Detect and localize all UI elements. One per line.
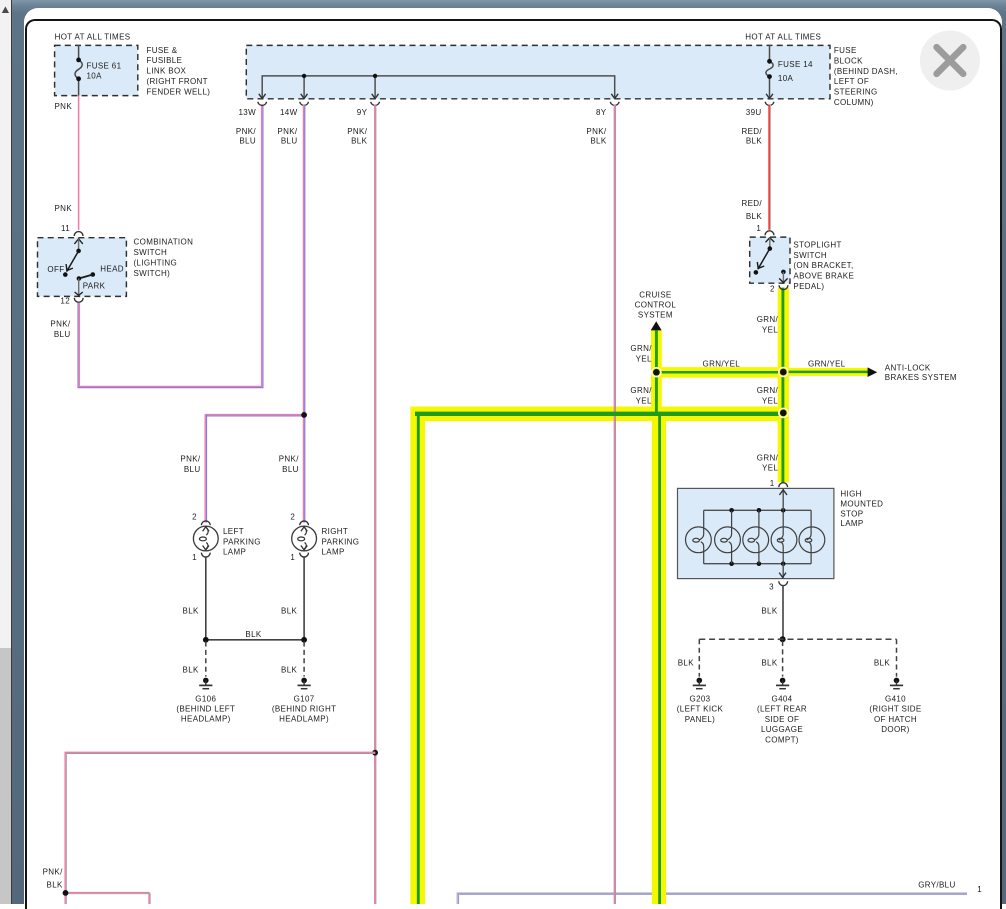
- GRN/YEL highlight band: long horizontal with left drop (D/E): [418, 414, 784, 904]
- svg-text:BLK: BLK: [183, 606, 199, 615]
- GRN/YEL wire green core: cruise vertical upper (C): [655, 331, 658, 414]
- lamp feed horizontal (two-tone): [205, 415, 305, 416]
- connector cups below fuse block: [258, 102, 774, 106]
- svg-text:YEL: YEL: [762, 325, 778, 334]
- svg-text:COMPT): COMPT): [765, 735, 799, 744]
- svg-text:GRN/: GRN/: [757, 386, 779, 395]
- svg-text:SYSTEM: SYSTEM: [638, 311, 673, 320]
- stop lamp exit with arrow: [779, 564, 786, 579]
- right parking lamp: [292, 526, 317, 551]
- svg-text:COLUMN): COLUMN): [834, 98, 874, 107]
- svg-text:PNK/: PNK/: [279, 455, 299, 464]
- svg-text:9Y: 9Y: [357, 108, 368, 117]
- svg-text:G404: G404: [772, 695, 793, 704]
- svg-text:GRN/: GRN/: [630, 386, 652, 395]
- 9Y PNK/BLK wire down (two-tone): [375, 105, 376, 904]
- 14W PNK/BLU wire down to junction: [303, 105, 304, 416]
- svg-text:FUSE &: FUSE &: [147, 46, 178, 55]
- 8Y PNK/BLK wire down (two-tone): [614, 105, 615, 904]
- GRN/YEL wire green core: ABS horizontal right (B): [783, 371, 867, 374]
- svg-text:PNK/: PNK/: [180, 455, 200, 464]
- svg-text:1: 1: [192, 553, 197, 562]
- dashed drop to G404: [782, 641, 784, 677]
- scrollbar up-arrow: [2, 6, 9, 13]
- svg-text:YEL: YEL: [762, 464, 778, 473]
- high mounted stop lamp name label: [840, 490, 883, 529]
- svg-text:LAMP: LAMP: [840, 519, 863, 528]
- svg-text:SWITCH: SWITCH: [793, 251, 827, 260]
- svg-text:FUSE: FUSE: [834, 46, 857, 55]
- svg-text:RED/: RED/: [741, 199, 762, 208]
- svg-text:RIGHT: RIGHT: [322, 527, 349, 536]
- svg-text:BLK: BLK: [351, 136, 367, 145]
- svg-text:PARKING: PARKING: [223, 537, 261, 546]
- svg-text:8Y: 8Y: [596, 108, 607, 117]
- GRN/YEL highlight band: cruise control vertical upper (C): [651, 331, 662, 414]
- svg-text:GRN/: GRN/: [757, 315, 779, 324]
- 9Y branch junction node: [372, 750, 378, 756]
- svg-text:(BEHIND DASH,: (BEHIND DASH,: [834, 67, 898, 76]
- svg-text:(LIGHTING: (LIGHTING: [134, 258, 178, 267]
- G106 ground label: [176, 694, 235, 723]
- dashed drop to G107: [303, 642, 305, 677]
- combination switch internals: [63, 239, 95, 296]
- svg-text:BLK: BLK: [590, 136, 606, 145]
- svg-text:BLK: BLK: [183, 665, 199, 674]
- stop lamp bulb 3: [743, 510, 769, 563]
- svg-text:BLK: BLK: [761, 659, 777, 668]
- svg-text:2: 2: [290, 513, 295, 522]
- right parking lamp name label: [322, 527, 360, 557]
- ground G203 symbol: [693, 678, 706, 689]
- junction node 14W/lamp feed: [301, 412, 307, 418]
- svg-text:1: 1: [756, 224, 761, 233]
- svg-text:BLU: BLU: [282, 465, 299, 474]
- junction node A/D: [778, 408, 789, 419]
- svg-text:(ON BRACKET,: (ON BRACKET,: [793, 261, 853, 270]
- right parking lamp pin 2 connector cup: [300, 521, 309, 525]
- BLK wire right lamp to junction: [303, 557, 305, 640]
- fuse 61 symbol: [75, 45, 82, 96]
- GRN/YEL highlight band: stoplight switch to stop lamp (vertical A): [778, 288, 789, 483]
- svg-text:GRN/YEL: GRN/YEL: [703, 359, 741, 368]
- GRN/YEL wire green core: cruise vertical lower (C): [658, 412, 661, 904]
- svg-text:STOP: STOP: [840, 509, 863, 518]
- stoplight switch box: [750, 237, 790, 283]
- svg-text:OF HATCH: OF HATCH: [874, 715, 917, 724]
- svg-text:GRN/: GRN/: [757, 454, 779, 463]
- svg-text:3: 3: [769, 582, 774, 591]
- svg-text:YEL: YEL: [762, 396, 778, 405]
- stop lamp bulb 1: [686, 510, 712, 563]
- svg-text:HIGH: HIGH: [840, 490, 861, 499]
- stop lamp bulb 4: [771, 510, 797, 563]
- svg-text:GRN/: GRN/: [630, 344, 652, 353]
- pin 11 connector cup: [74, 232, 83, 236]
- GRN/YEL wire green core: long horizontal (D): [415, 412, 783, 416]
- anti-lock brakes arrow: [868, 367, 878, 377]
- junction node left lamp ground: [203, 637, 209, 643]
- svg-text:HEAD: HEAD: [100, 265, 124, 274]
- svg-text:FUSE 61: FUSE 61: [87, 61, 122, 70]
- G203 ground label: [677, 695, 724, 724]
- svg-text:(BEHIND RIGHT: (BEHIND RIGHT: [272, 705, 337, 714]
- svg-text:1: 1: [290, 553, 295, 562]
- ground G107 symbol: [298, 678, 311, 689]
- GRN/YEL wire green core: ABS horizontal left (B): [656, 371, 783, 374]
- svg-text:BLU: BLU: [281, 136, 298, 145]
- svg-text:YEL: YEL: [636, 396, 652, 405]
- left parking lamp pin 2 connector cup: [201, 521, 210, 525]
- svg-text:12: 12: [60, 297, 70, 306]
- svg-text:STOPLIGHT: STOPLIGHT: [793, 240, 841, 249]
- left parking lamp: [193, 526, 218, 551]
- stop lamp pin 1 connector cup: [779, 483, 788, 487]
- svg-text:BLK: BLK: [678, 659, 694, 668]
- PNK/BLU wire: pin 12 down, right, up to 13W (two-tone): [78, 105, 263, 388]
- stoplight switch pin 1 connector cup: [765, 231, 774, 235]
- PNK/BLK branch wire to bottom left (two-tone): [65, 752, 375, 904]
- svg-text:HEADLAMP): HEADLAMP): [181, 715, 231, 724]
- fuse &amp; fusible link box: [55, 45, 138, 95]
- svg-text:PARKING: PARKING: [322, 537, 360, 546]
- svg-text:LUGGAGE: LUGGAGE: [761, 725, 803, 734]
- BLK wire left lamp to junction: [205, 557, 207, 640]
- stop lamp feed entry with arrow: [779, 488, 787, 510]
- BLK wire from stop lamp pin 3: [782, 585, 784, 639]
- svg-text:PNK/: PNK/: [50, 320, 70, 329]
- svg-text:2: 2: [770, 285, 775, 294]
- G107 ground label: [272, 694, 337, 723]
- scrollbar thumb: [0, 648, 11, 904]
- svg-text:39U: 39U: [746, 108, 762, 117]
- stoplight switch name label: [793, 240, 854, 291]
- svg-text:SIDE OF: SIDE OF: [765, 715, 799, 724]
- svg-text:HEADLAMP): HEADLAMP): [279, 715, 329, 724]
- svg-text:PNK/: PNK/: [277, 127, 297, 136]
- svg-text:BLK: BLK: [746, 136, 762, 145]
- ground G410 symbol: [890, 678, 903, 689]
- svg-text:DOOR): DOOR): [881, 725, 909, 734]
- svg-text:LAMP: LAMP: [223, 548, 246, 557]
- branch junction node bottom left: [63, 890, 69, 896]
- G410 ground label: [869, 695, 921, 735]
- GRN/YEL highlight band: cruise control vertical lower (C): [652, 407, 666, 905]
- svg-text:2: 2: [192, 513, 197, 522]
- 39U RED/BLK wire down to stoplight switch (two-tone): [769, 105, 770, 230]
- scrollbar track: [0, 0, 11, 904]
- svg-text:CRUISE: CRUISE: [639, 291, 671, 300]
- svg-text:(LEFT KICK: (LEFT KICK: [677, 705, 724, 714]
- GRN/YEL wire green core: switch to stop lamp (A): [781, 288, 784, 483]
- close button: [920, 31, 980, 91]
- combination switch box: [38, 238, 127, 297]
- svg-text:COMBINATION: COMBINATION: [134, 238, 194, 247]
- svg-text:LEFT OF: LEFT OF: [834, 77, 869, 86]
- anti-lock brakes system label: [885, 363, 957, 382]
- svg-text:CONTROL: CONTROL: [635, 301, 677, 310]
- right parking lamp pin 1 connector cup: [300, 553, 309, 557]
- svg-text:PNK: PNK: [55, 102, 73, 111]
- svg-text:YEL: YEL: [636, 354, 652, 363]
- junction node A/B: [778, 367, 789, 378]
- svg-text:GRN/YEL: GRN/YEL: [808, 359, 846, 368]
- svg-text:PNK/: PNK/: [586, 127, 606, 136]
- svg-text:PNK/: PNK/: [236, 127, 256, 136]
- BLK crossover wire between lamp grounds: [206, 639, 304, 641]
- svg-text:BLK: BLK: [47, 881, 63, 890]
- svg-text:PNK/: PNK/: [347, 127, 367, 136]
- cruise control arrow: [651, 321, 662, 330]
- svg-text:10A: 10A: [778, 74, 794, 83]
- svg-text:OFF: OFF: [47, 265, 64, 274]
- svg-text:BLU: BLU: [184, 465, 201, 474]
- svg-text:LAMP: LAMP: [322, 548, 345, 557]
- stop lamp internal bus top: [704, 508, 811, 513]
- dashed ground bus: [699, 638, 896, 640]
- svg-text:BLOCK: BLOCK: [834, 56, 863, 65]
- svg-text:GRY/BLU: GRY/BLU: [918, 881, 955, 890]
- svg-text:13W: 13W: [239, 108, 257, 117]
- fuse 14 symbol: [766, 45, 773, 99]
- svg-text:PNK/: PNK/: [43, 868, 63, 877]
- svg-text:ABOVE BRAKE: ABOVE BRAKE: [793, 272, 854, 281]
- stop lamp bulb 2: [715, 510, 741, 563]
- left parking lamp pin 1 connector cup: [201, 553, 210, 557]
- scrollbar separator line: [11, 0, 12, 904]
- svg-text:BLK: BLK: [281, 665, 297, 674]
- cruise control system label: [635, 291, 677, 320]
- ground bus junction node: [780, 636, 786, 642]
- fuse box name label: [147, 46, 211, 97]
- stop lamp internal bus bottom: [704, 561, 811, 566]
- junction node right lamp ground: [301, 637, 307, 643]
- svg-text:PARK: PARK: [83, 282, 106, 291]
- svg-text:14W: 14W: [280, 108, 298, 117]
- svg-text:ANTI-LOCK: ANTI-LOCK: [885, 363, 931, 372]
- combination switch name label: [134, 238, 194, 278]
- ground G106 symbol: [199, 678, 212, 689]
- PNK wire fuse61 to combination switch: [78, 96, 80, 230]
- svg-text:BLK: BLK: [874, 659, 890, 668]
- svg-text:BLU: BLU: [239, 136, 256, 145]
- svg-text:(BEHIND LEFT: (BEHIND LEFT: [176, 705, 235, 714]
- left parking lamp name label: [223, 527, 261, 557]
- svg-text:(LEFT REAR: (LEFT REAR: [757, 705, 807, 714]
- svg-text:11: 11: [61, 224, 70, 233]
- pin 12 connector cup: [74, 298, 83, 302]
- right parking lamp feed wire: [303, 415, 304, 523]
- stop lamp bulb 5: [799, 510, 825, 563]
- svg-text:FENDER WELL): FENDER WELL): [147, 87, 211, 96]
- dashed drop to G410: [896, 639, 898, 676]
- svg-text:LEFT: LEFT: [223, 527, 244, 536]
- dashed drop to G203: [698, 639, 700, 676]
- junction node B/C: [651, 367, 662, 378]
- high mounted stop lamp box: [678, 488, 834, 578]
- svg-text:BLK: BLK: [245, 630, 261, 639]
- GRN/YEL wire green core: left drop vertical (E): [417, 412, 420, 904]
- svg-text:BLK: BLK: [746, 212, 762, 221]
- svg-text:PNK: PNK: [55, 204, 73, 213]
- svg-text:1: 1: [770, 479, 775, 488]
- svg-text:BLK: BLK: [281, 606, 297, 615]
- svg-text:HOT AT ALL TIMES: HOT AT ALL TIMES: [745, 32, 821, 41]
- svg-text:G106: G106: [195, 694, 216, 703]
- svg-text:PEDAL): PEDAL): [793, 282, 824, 291]
- svg-text:G107: G107: [294, 694, 315, 703]
- svg-text:G410: G410: [885, 695, 906, 704]
- svg-text:BRAKES SYSTEM: BRAKES SYSTEM: [885, 373, 957, 382]
- svg-text:SWITCH: SWITCH: [134, 248, 168, 257]
- svg-text:10A: 10A: [87, 72, 103, 81]
- svg-text:BLK: BLK: [761, 607, 777, 616]
- stoplight switch pin 2 connector cup: [779, 285, 788, 289]
- svg-text:(RIGHT SIDE: (RIGHT SIDE: [869, 705, 921, 714]
- ground G404 symbol: [776, 678, 789, 689]
- svg-text:HOT AT ALL TIMES: HOT AT ALL TIMES: [55, 32, 131, 41]
- svg-text:1: 1: [977, 885, 982, 894]
- svg-text:G203: G203: [690, 695, 711, 704]
- left parking lamp feed wire: [205, 415, 206, 523]
- svg-text:SWITCH): SWITCH): [134, 269, 171, 278]
- svg-text:PANEL): PANEL): [685, 715, 715, 724]
- GRN/YEL highlight band: horizontal to anti-lock brakes left segment (B): [656, 367, 783, 378]
- fuse block box (behind dash): [246, 45, 830, 98]
- svg-text:(RIGHT FRONT: (RIGHT FRONT: [147, 77, 208, 86]
- svg-text:FUSIBLE: FUSIBLE: [147, 56, 183, 65]
- svg-text:LINK BOX: LINK BOX: [147, 67, 187, 76]
- svg-text:STEERING: STEERING: [834, 88, 878, 97]
- svg-text:FUSE 14: FUSE 14: [778, 60, 813, 69]
- stop lamp pin 3 connector cup: [779, 581, 788, 585]
- GRY/BLU wire bottom right (two-tone): [457, 893, 967, 904]
- fuse block internal bus: [262, 74, 615, 99]
- G404 ground label: [757, 695, 807, 745]
- svg-text:RED/: RED/: [741, 127, 762, 136]
- svg-text:MOUNTED: MOUNTED: [840, 499, 883, 508]
- dashed drop to G106: [205, 642, 207, 677]
- GRN/YEL highlight band: horizontal to anti-lock brakes right segment (B): [783, 368, 867, 376]
- stoplight switch internals: [754, 238, 788, 283]
- fuse block name label: [834, 46, 898, 107]
- svg-text:BLU: BLU: [54, 330, 71, 339]
- bus exit arrows (13W,14W,9Y,8Y): [259, 94, 618, 99]
